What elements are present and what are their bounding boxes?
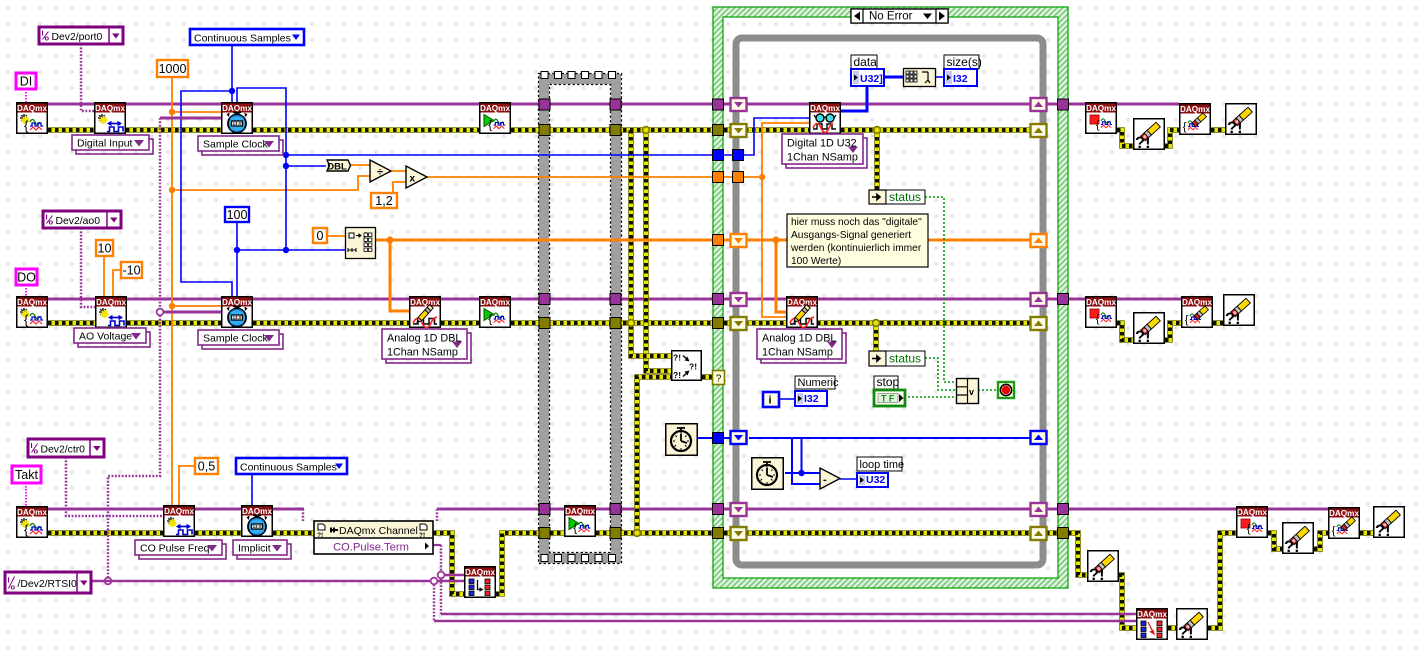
junction: samples branch <box>283 152 289 158</box>
numeric constant 1,2 <box>371 193 397 208</box>
tunnel: case error row3 <box>713 528 724 539</box>
junction: clock source branch <box>157 309 164 316</box>
svg-text:x: x <box>410 174 416 185</box>
wire: RTSI0 to connect terminals <box>91 580 464 582</box>
wire: task createAO to timing2 <box>127 298 221 301</box>
svg-text:status: status <box>889 190 921 204</box>
label status1 <box>886 190 925 204</box>
wire: error create1 to create2 <box>48 127 94 133</box>
indicator Numeric I32 <box>795 391 827 406</box>
subtract node <box>820 468 840 489</box>
DAQmx create channel AO voltage <box>96 297 127 328</box>
junction: array branch <box>386 236 393 243</box>
svg-text:÷: ÷ <box>377 167 383 179</box>
DAQmx start task (CO) in sequence <box>565 506 596 537</box>
indicator data U32 array <box>851 69 884 86</box>
tunnel: seq right error row3 <box>610 528 621 539</box>
wire: task write to right shift register <box>817 298 1058 301</box>
tunnel: seq right error row2 <box>610 318 621 329</box>
junction: 1000 to timing2 <box>169 303 175 309</box>
label stop <box>874 375 900 389</box>
wire: 100 to initialize array size <box>237 249 345 251</box>
DAQmx Channel property node <box>314 521 433 554</box>
wire: DO name to createDO <box>25 285 27 296</box>
junction: timeout branch <box>759 174 765 180</box>
tunnel: case task row1 <box>713 99 724 110</box>
wire: i terminal to Numeric indicator <box>779 398 795 400</box>
tunnel: loop samples blue <box>733 150 744 161</box>
svg-text:CO Pulse Freq: CO Pulse Freq <box>140 543 210 555</box>
svg-text:Sample Clock: Sample Clock <box>203 333 269 345</box>
shift register left: task row1 <box>731 98 747 111</box>
simple error handler 1b <box>1226 104 1257 137</box>
svg-text:werden (kontinuierlich immer: werden (kontinuierlich immer <box>790 243 922 254</box>
wire: status1 boolean to or <box>925 197 957 382</box>
DAQmx stop task row3 <box>1237 507 1268 538</box>
simple error handler 1a <box>1134 119 1165 152</box>
tunnel: seq right error row1 <box>610 125 621 136</box>
svg-text:DAQmx Channel: DAQmx Channel <box>339 525 418 537</box>
tunnel: seq left task row1 <box>539 99 550 110</box>
wire: task case to stop3 <box>1068 508 1236 511</box>
tunnel: seq left task row3 <box>539 504 550 515</box>
wire: error start1 into case <box>511 127 713 133</box>
string constant Takt <box>12 466 41 483</box>
wire: task case to stop1 <box>1068 103 1085 106</box>
wire: error clear2 to error handler 2b <box>1213 320 1223 326</box>
svg-text:1Chan NSamp: 1Chan NSamp <box>387 347 458 359</box>
tunnel: case right task row1 <box>1058 99 1069 110</box>
DAQmx create channel digital input <box>95 103 126 134</box>
svg-text:100 Werte): 100 Werte) <box>791 256 841 267</box>
DAQmx clear task row3 <box>1329 508 1360 539</box>
svg-text:U32]: U32] <box>860 73 883 85</box>
wire: task timing3 elbow <box>273 508 304 511</box>
wire: enum to timing1 sample mode <box>231 45 233 102</box>
wire: task row3 through loop <box>724 508 1058 511</box>
svg-text:0,5: 0,5 <box>198 460 215 474</box>
svg-text:hier muss noch das "digitale": hier muss noch das "digitale" <box>791 217 922 228</box>
unbundle status2 node <box>869 351 886 366</box>
wire: error stop2 to error handler 2a <box>1117 323 1133 340</box>
wire: 1000 to timing1 rate <box>172 111 221 113</box>
wire: task start3 into case <box>596 508 713 511</box>
svg-text:I: I <box>8 576 10 585</box>
svg-text:I: I <box>31 441 33 450</box>
loop iteration terminal i <box>763 392 779 407</box>
wire: clock source to timing1 <box>160 117 221 120</box>
wire: error start3 into case <box>596 530 713 536</box>
shift register left: task row2 <box>731 293 747 306</box>
shift register left: error row2 <box>731 317 747 330</box>
wire: task stop1 to clear1 <box>1117 103 1179 106</box>
wire: array size to I32 indicator <box>936 76 944 78</box>
shift register right: array orange <box>1031 234 1047 247</box>
DAQmx create virtual channel (Takt) <box>17 507 48 538</box>
wire: error write2 to start2 <box>441 320 479 326</box>
wire: error stop1 to error handler 1a <box>1117 130 1133 146</box>
loop condition stop terminal <box>998 382 1014 398</box>
wire: error handler b2 up to stop3 <box>1208 533 1236 628</box>
DAQmx create virtual channel (DO) <box>17 297 48 328</box>
wire: task createCO to timing3 <box>195 508 241 511</box>
label data <box>851 55 877 69</box>
wire: array to write2 <box>376 240 409 311</box>
simple error handler 2a <box>1134 313 1165 346</box>
wire: DI name to create1 <box>25 89 27 102</box>
junction: error row1 branch <box>643 127 650 134</box>
wire: enum3 to timing3 sample mode <box>251 474 253 505</box>
svg-text:Dev2/port0: Dev2/port0 <box>52 32 103 43</box>
wire: error clear3 to handler b4 <box>1360 530 1373 536</box>
simple error handler b4 <box>1374 507 1405 540</box>
DAQmx disconnect terminals <box>1137 609 1168 640</box>
svg-text:Numeric: Numeric <box>798 377 839 389</box>
svg-text:o: o <box>45 34 50 43</box>
wire: error timing3 to property node <box>273 530 314 536</box>
wire: task to write in loop <box>724 298 786 301</box>
svg-text:T F: T F <box>881 394 895 404</box>
wire: terminal branch down <box>440 575 443 614</box>
numeric constant 100 <box>225 207 249 222</box>
wire: error createAO to timing2 <box>127 320 221 326</box>
polymorphic selector AO Voltage <box>74 328 150 347</box>
wire: task stop3 to clear3 <box>1268 508 1328 511</box>
polymorphic selector Sample Clock (AO) <box>198 330 283 349</box>
svg-text:data: data <box>854 55 878 69</box>
label status2 <box>886 351 925 366</box>
wire: subtract to loop time indicator <box>840 478 857 480</box>
wire: error createCO to timing3 <box>195 530 241 536</box>
wire: terminal to disconnect terminals <box>441 613 1136 615</box>
tunnel: case timeout orange <box>713 172 724 183</box>
DAQmx stop task row2 <box>1086 297 1117 328</box>
junction: array to write <box>772 236 779 243</box>
svg-text:Sample Clock: Sample Clock <box>203 139 269 151</box>
wire: error row3 through loop <box>724 530 1058 536</box>
shift register right: error row3 <box>1031 527 1047 540</box>
junction: 1000 to divide <box>169 187 175 193</box>
wire: samples to read <box>724 118 810 155</box>
DAQmx connect terminals <box>465 567 496 598</box>
junction: join RTSI wire <box>105 578 112 585</box>
compound or node <box>957 379 979 404</box>
wire: error create2 to timing1 <box>126 127 221 133</box>
wire: U32 array to array size <box>884 76 903 79</box>
tunnel: seq right task row2 <box>610 294 621 305</box>
simple error handler b1 <box>1088 551 1119 584</box>
indicator loop time U32 <box>857 473 888 487</box>
svg-text:No Error: No Error <box>869 11 913 23</box>
svg-text:Dev2/ao0: Dev2/ao0 <box>56 216 101 227</box>
I/O constant Dev2/port0 <box>39 27 123 44</box>
wire: Takt name to createTakt <box>25 483 27 506</box>
wire: error start2 into case <box>511 320 713 326</box>
svg-text:I: I <box>46 213 48 222</box>
wire: array into loop <box>724 239 787 242</box>
simple error handler 2b <box>1224 295 1255 328</box>
wire: task into start3 <box>550 508 564 511</box>
wire: error clear1 to error handler 1b <box>1211 127 1225 133</box>
tunnel: seq right task row3 <box>610 504 621 515</box>
junction: error to status2 <box>873 320 880 327</box>
svg-text:Digital Input: Digital Input <box>77 138 133 150</box>
I/O constant Dev2/ctr0 <box>28 439 104 457</box>
svg-text:1000: 1000 <box>159 62 187 76</box>
junction: terminal branch <box>438 572 445 579</box>
multiply node <box>406 166 427 188</box>
wire: tick to shift register line <box>801 439 803 473</box>
wire: read data to U32 array indicator <box>841 86 867 111</box>
wire: error timing2 to write2 <box>253 320 409 326</box>
wire: error timing1 to start1 <box>253 127 479 133</box>
wire: task timing1 to start1 <box>253 103 479 106</box>
wire: array to case <box>390 239 713 242</box>
wire: task DI create1 to create2 <box>48 103 94 106</box>
numeric constant 0 <box>313 228 327 243</box>
svg-text:I32: I32 <box>804 393 819 405</box>
junction: error row3 branch <box>634 530 641 537</box>
svg-text:Implicit: Implicit <box>238 543 271 555</box>
wire: task down into property node <box>302 509 305 521</box>
tunnel: case right task row3 <box>1058 504 1069 515</box>
DAQmx create channel CO pulse freq <box>164 506 195 537</box>
svg-text:1Chan NSamp: 1Chan NSamp <box>762 347 833 359</box>
wire: error branch down to status1 unbundle <box>874 130 880 190</box>
shift register right: task row3 <box>1031 503 1047 516</box>
svg-text:stop: stop <box>877 375 900 389</box>
wire: previous tick to subtract <box>792 439 820 484</box>
wire: enum branch to timing2 sample mode <box>181 91 232 296</box>
tunnel: case error row1 <box>713 125 724 136</box>
wire: 100 up to timing1 samples <box>237 88 286 250</box>
case selector "?" terminal <box>713 371 725 385</box>
label Numeric <box>795 376 839 389</box>
indicator size I32 <box>944 69 977 86</box>
wire: error branch to merge errors input1 <box>631 130 671 356</box>
wire: error row3 branch up to merge errors <box>637 377 671 533</box>
wire: task to DAQmx read in loop <box>724 103 810 106</box>
DAQmx timing sample clock (AI) <box>222 103 253 134</box>
tick count clock (outside loop) <box>666 424 698 456</box>
tick count clock (inside loop) <box>752 458 784 490</box>
wire: task read to right shift register <box>841 103 1058 106</box>
merge errors node <box>672 351 702 381</box>
wire: task timing2 to write2 <box>253 298 409 301</box>
wire: error createTakt to createCO <box>48 530 163 536</box>
svg-text:Ausgangs-Signal generiert: Ausgangs-Signal generiert <box>791 230 911 241</box>
svg-text:o: o <box>49 218 54 227</box>
wire: error handler b3 to clear3 <box>1314 533 1328 549</box>
tunnel: case right error row3 <box>1058 528 1069 539</box>
wire: error connect terminals up to sequence <box>496 533 539 594</box>
wire: error property node down to connect terminals <box>433 533 464 594</box>
wire: error createDO to createAO <box>48 320 95 326</box>
wire: task property node to sequence <box>437 508 539 511</box>
svg-text:Continuous Samples: Continuous Samples <box>240 462 337 474</box>
DBL conversion bubble <box>327 160 351 173</box>
wire: shift register time line <box>749 437 1031 439</box>
shift register right: task row2 <box>1031 293 1047 306</box>
wire: task case to stop2 <box>1068 298 1085 301</box>
polymorphic selector Analog 1D DBL (loop write) <box>757 329 846 363</box>
DAQmx start task (DI) <box>480 103 511 134</box>
wire: error to write in loop <box>724 320 786 326</box>
junction: enum branch <box>229 88 235 94</box>
tunnel: seq left task row2 <box>539 294 550 305</box>
wire: 1000 constant vertical down to CO create <box>171 77 173 505</box>
wire: status2 boolean to or <box>925 358 957 390</box>
case selector label No Error <box>851 9 948 23</box>
label size(s) <box>944 55 982 69</box>
boolean stop TF control <box>874 390 905 406</box>
shift register left: array orange <box>731 234 747 247</box>
wire: tick count2 to subtract <box>785 472 820 474</box>
numeric constant 0,5 <box>195 458 218 474</box>
tunnel: case array orange <box>713 235 724 246</box>
DAQmx write (loop) <box>787 297 818 328</box>
wire: error stop3 to handler b3 <box>1268 533 1282 549</box>
wire: CO.Pulse.Term out <box>433 544 441 546</box>
string constant DO <box>16 269 37 285</box>
DAQmx create virtual channel (DI) <box>17 103 48 134</box>
string constant DI <box>16 73 36 89</box>
shift register left: error row1 <box>731 124 747 137</box>
while loop (grey rounded border) <box>736 38 1043 565</box>
DAQmx write (AO setup) <box>410 297 441 328</box>
shift register right: error row1 <box>1031 124 1047 137</box>
junction: error to status1 <box>874 127 881 134</box>
wire: 0 constant to initialize array <box>326 235 345 237</box>
wire: error branch down to status2 unbundle <box>873 323 879 351</box>
svg-text:100: 100 <box>227 208 248 222</box>
DAQmx clear task row1 <box>1180 104 1211 135</box>
label loop time <box>857 457 904 471</box>
wire: error disconnect to handler b2 <box>1168 625 1176 631</box>
svg-text:?: ? <box>716 374 722 385</box>
junction: 100 branch <box>234 247 240 253</box>
svg-text:v: v <box>969 387 974 397</box>
svg-text:I32: I32 <box>953 73 968 85</box>
wire: error handler 1a to clear1 <box>1165 130 1179 146</box>
DAQmx clear task row2 <box>1182 297 1213 328</box>
shift register right: task row1 <box>1031 98 1047 111</box>
wire: 100 to DBL conversion <box>286 165 326 167</box>
junction: 100 vertical <box>283 247 289 253</box>
tunnel: loop timeout orange <box>733 172 744 183</box>
numeric constant 1000 <box>157 60 188 77</box>
svg-text:10: 10 <box>98 242 112 256</box>
svg-text:Analog 1D DBL: Analog 1D DBL <box>387 333 461 345</box>
numeric constant 10 <box>96 240 113 256</box>
svg-text:i: i <box>769 395 772 407</box>
polymorphic selector CO Pulse Freq <box>135 540 226 559</box>
wire: 1000 to timing2 rate <box>172 305 221 307</box>
simple error handler b3 <box>1283 523 1314 556</box>
wire: merged error to case selector tunnel <box>702 374 713 380</box>
wire: task start1 into case structure <box>511 103 713 106</box>
svg-text:DI: DI <box>20 75 33 89</box>
wire: terminal down <box>440 545 443 575</box>
tunnel: seq left error row3 <box>539 528 550 539</box>
divide node <box>370 160 391 182</box>
shift register right: error row2 <box>1031 317 1047 330</box>
shift register left: task row3 <box>731 503 747 516</box>
tunnel: seq left error row2 <box>539 318 550 329</box>
svg-text:AO Voltage: AO Voltage <box>79 331 132 343</box>
svg-text:Digital 1D U32: Digital 1D U32 <box>787 138 857 150</box>
DAQmx read (loop) <box>810 103 841 134</box>
DAQmx timing implicit (CO) <box>242 506 273 537</box>
wire: task DO create to AO create <box>48 298 95 301</box>
svg-text:?!: ?! <box>317 532 323 539</box>
numeric constant -10 <box>121 262 142 278</box>
svg-text:DO: DO <box>17 271 36 285</box>
polymorphic selector Digital 1D U32 (read) <box>782 134 867 168</box>
I/O constant Dev2/ao0 <box>43 211 121 228</box>
wire: 1000 to divide input <box>172 176 370 190</box>
DAQmx stop task row1 <box>1086 103 1117 134</box>
svg-text:Dev2/ctr0: Dev2/ctr0 <box>41 444 86 455</box>
wire: 100 samples to case <box>286 154 713 156</box>
tunnel: seq right task row1 <box>610 99 621 110</box>
tunnel: case error row2 <box>713 318 724 329</box>
junction: DBL branch <box>283 163 289 169</box>
wire: array to right shift register <box>924 239 1031 242</box>
wire: tick count into loop <box>724 437 733 439</box>
tunnel: case task row3 <box>713 504 724 515</box>
wire: error row1 branch down to merge errors <box>646 130 671 371</box>
junction: RTSI branch <box>431 578 438 585</box>
svg-text:1Chan NSamp: 1Chan NSamp <box>787 152 858 164</box>
wire: task write2 to start2 <box>441 298 479 301</box>
wire: array to write in loop <box>776 240 786 312</box>
wire: error write to right shift register <box>817 320 1031 326</box>
tunnel: case right task row2 <box>1058 294 1069 305</box>
wire: terminal to connect terminals <box>441 574 464 576</box>
wire: task up from property node <box>436 509 439 521</box>
svg-text:0: 0 <box>317 229 324 243</box>
wire: error handler b1 to disconnect terminals <box>1119 575 1136 628</box>
unbundle status1 node <box>869 190 886 204</box>
tunnel: case samples blue <box>713 150 724 161</box>
svg-text:-: - <box>823 474 827 486</box>
svg-text:/Dev2/RTSI0: /Dev2/RTSI0 <box>18 579 78 590</box>
wire: divide to multiply <box>392 170 406 172</box>
svg-text:U32: U32 <box>866 474 885 486</box>
wire: clock source to timing2 <box>160 311 221 314</box>
free label comment box (German note) <box>787 214 928 267</box>
wire: RTSI branch down <box>433 581 436 621</box>
wire: task createTakt to createCO <box>48 508 163 511</box>
tunnel: case tick count blue <box>713 433 724 444</box>
wire: timeout down to write loop <box>762 177 786 317</box>
wire: error to read in loop <box>724 127 810 133</box>
wire: 1,2 constant to multiply <box>393 182 406 195</box>
wire: Dev2/ao0 to createAO <box>81 228 95 307</box>
case structure "No Error" (green hatched border) <box>713 7 1068 588</box>
svg-text:Continuous Samples: Continuous Samples <box>194 33 291 45</box>
polymorphic selector Digital Input <box>72 135 153 154</box>
wire: task stop2 to clear2 <box>1117 298 1181 301</box>
svg-text:size(s): size(s) <box>947 55 982 69</box>
svg-text:CO.Pulse.Term: CO.Pulse.Term <box>333 542 409 554</box>
DAQmx start task (AO) <box>480 297 511 328</box>
svg-text:-10: -10 <box>122 264 140 278</box>
wire: task create2 to timing1 <box>126 103 221 106</box>
enum constant Continuous Samples (top) <box>190 29 304 45</box>
junction: tick branch <box>798 470 804 476</box>
